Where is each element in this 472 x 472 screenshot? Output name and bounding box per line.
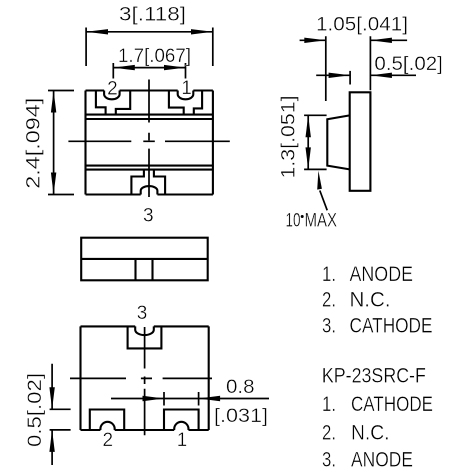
svg-text:KP-23SRC-F: KP-23SRC-F xyxy=(322,363,426,387)
pin 2 pad (top view) xyxy=(96,91,130,115)
package outline (side view) xyxy=(81,238,208,281)
svg-text:N.C.: N.C. xyxy=(351,420,390,444)
dimension 1.3[.051] (profile) xyxy=(304,115,327,169)
pin 3 lead (side view) xyxy=(136,259,153,280)
svg-text:CATHODE: CATHODE xyxy=(351,392,433,416)
svg-text:2: 2 xyxy=(107,79,118,100)
svg-text:1.7[.067]: 1.7[.067] xyxy=(118,46,191,67)
package outline (bottom view) xyxy=(81,326,209,430)
pin 3 notch (top view) xyxy=(141,186,158,194)
svg-text:1.: 1. xyxy=(322,262,336,286)
pin 2 notch (bottom view) xyxy=(100,422,114,430)
svg-text:1: 1 xyxy=(177,430,188,451)
pin 3 pad (top view) xyxy=(131,170,165,195)
svg-text:3: 3 xyxy=(143,206,154,227)
svg-text:CATHODE: CATHODE xyxy=(350,313,433,337)
dimension 0.5[.02] (bottom view) xyxy=(50,364,71,465)
pin 1 pad (top view) xyxy=(169,91,202,115)
pin 1 notch (top view) xyxy=(178,91,194,100)
dimension 0.8[.031] (bottom view) xyxy=(111,392,269,406)
svg-text:0.5[.02]: 0.5[.02] xyxy=(25,373,46,447)
svg-text:0.8: 0.8 xyxy=(226,377,255,398)
svg-text:[.031]: [.031] xyxy=(214,406,268,427)
package outline (top view) xyxy=(86,91,213,195)
svg-text:1.3[.051]: 1.3[.051] xyxy=(279,96,300,179)
pin 1 notch (bottom view) xyxy=(174,422,188,430)
dimension 2.4[.094] xyxy=(48,91,74,195)
package body (profile) xyxy=(350,92,371,191)
svg-text:ANODE: ANODE xyxy=(350,262,414,286)
svg-text:1.05[.041]: 1.05[.041] xyxy=(316,15,408,36)
horizontal centerline (top view) xyxy=(68,140,229,142)
svg-text:2.4[.094]: 2.4[.094] xyxy=(24,98,45,189)
svg-text:3.: 3. xyxy=(322,313,336,337)
svg-text:2.: 2. xyxy=(322,420,336,444)
dimension 1.05[.041] (profile) xyxy=(300,36,408,101)
svg-text:N.C.: N.C. xyxy=(350,288,391,312)
svg-text:2: 2 xyxy=(103,430,114,451)
leader arrow 10 deg (profile) xyxy=(320,191,327,211)
vertical centerline (bottom view) xyxy=(144,327,146,435)
lens (profile) xyxy=(327,115,349,169)
pin 2 pad (bottom view) xyxy=(90,410,124,431)
svg-text:MAX: MAX xyxy=(305,211,338,232)
svg-text:3[.118]: 3[.118] xyxy=(119,5,186,26)
horizontal centerline (bottom view) xyxy=(70,377,212,379)
svg-text:10: 10 xyxy=(286,211,301,232)
svg-text:2.: 2. xyxy=(322,288,336,312)
dimension 3[.118] xyxy=(86,28,213,67)
moulding line upper (top view) xyxy=(86,115,213,119)
svg-text:1: 1 xyxy=(181,78,192,99)
svg-text:1.: 1. xyxy=(322,392,336,416)
dimension 0.5[.02] (profile) xyxy=(316,71,416,85)
pin 3 pad (bottom view) xyxy=(128,326,162,348)
pin 2 notch (top view) xyxy=(104,91,120,100)
vertical centerline (top view) xyxy=(148,80,150,198)
moulding line lower (top view) xyxy=(86,166,213,170)
svg-text:ANODE: ANODE xyxy=(351,447,413,471)
svg-text:3.: 3. xyxy=(322,447,336,471)
dimension 1.7[.067] xyxy=(113,63,185,79)
svg-text:3: 3 xyxy=(137,303,148,324)
pin 3 notch (bottom view) xyxy=(135,326,154,335)
pin 1 pad (bottom view) xyxy=(164,410,199,431)
svg-text:0.5[.02]: 0.5[.02] xyxy=(374,54,443,75)
